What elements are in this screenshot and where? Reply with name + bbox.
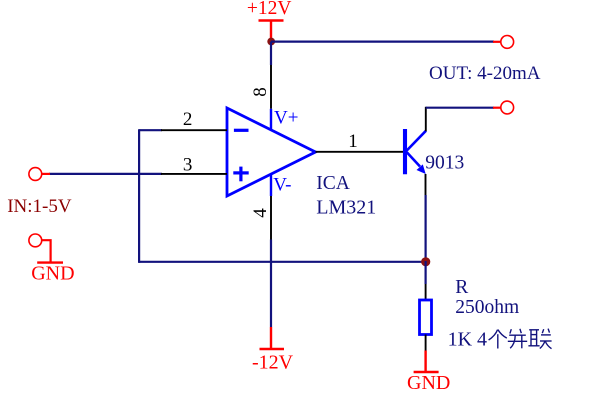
svg-text:ICA: ICA [316,173,350,194]
svg-text:1K 4: 1K 4 [448,328,487,350]
resistor R bottom lead [425,335,427,351]
wire pin 2 navy segment [139,129,162,131]
op-amp pin 2 lead [161,129,227,131]
wire feedback bottom horizontal [139,261,426,263]
terminal circle left GND [29,234,42,247]
op-amp pin 3 lead [161,173,227,175]
resistor R top lead [425,284,427,300]
wire node to resistor navy segment [425,261,427,284]
op-amp output pin 1 lead [316,151,404,153]
terminal circle top OUT [501,36,514,49]
op-amp non-inverting plus sign [233,171,248,174]
op-amp pin 8 blue stub [270,109,272,130]
wire feedback vertical [138,129,140,263]
svg-text:LM321: LM321 [316,197,376,219]
svg-text:GND: GND [31,262,74,284]
wire red stub at top terminal [493,41,502,43]
svg-text:9013: 9013 [425,153,464,174]
svg-text:R: R [455,277,468,298]
power -12V stub wire [270,327,272,349]
svg-text:250ohm: 250ohm [455,297,519,318]
wire from supply node down to pin 8 [270,42,272,65]
value note CJK char lian [528,329,551,349]
power +12V bar symbol [259,19,284,21]
wire red stub at lower output terminal [493,107,502,109]
power +12V stub wire [270,21,272,42]
transistor collector black stub [425,107,427,131]
transistor emitter black stub [425,174,427,195]
svg-text:1: 1 [348,131,358,152]
svg-text:2: 2 [183,109,193,130]
svg-text:OUT: 4-20mA: OUT: 4-20mA [429,63,541,84]
wire pin 4 to -12V [270,240,272,328]
transistor Q1 emitter diagonal with arrow [407,152,420,166]
junction dot supply node [267,38,275,46]
op-amp U1 triangle body [227,108,316,196]
value note CJK char bing [508,329,527,349]
wire left GND elbow [42,240,51,261]
wire red stub at IN terminal [42,173,51,175]
ground right GND bar symbol [414,371,439,373]
ground left GND bar symbol [37,261,63,263]
svg-text:V-: V- [273,174,291,195]
wire pin 3 navy segment from input [49,173,162,175]
op-amp inverting minus sign [234,129,249,132]
resistor R body box [420,300,432,335]
wire collector to output terminal [426,107,494,109]
svg-text:IN:1-5V: IN:1-5V [7,196,72,217]
power -12V bar symbol [260,348,285,350]
wire top rail to output terminal [271,40,494,42]
junction dot feedback node [421,257,430,266]
svg-text:GND: GND [407,372,450,394]
terminal circle lower OUT [501,101,514,114]
svg-text:4: 4 [250,208,271,218]
wire emitter down to feedback node [425,195,427,260]
op-amp pin 4 lead [270,196,272,240]
transistor Q1 base bar [403,129,407,174]
svg-text:V+: V+ [274,107,298,128]
svg-text:3: 3 [183,154,193,175]
svg-text:-12V: -12V [252,352,294,374]
op-amp pin 4 blue stub [270,174,272,196]
ground right stub wire [424,351,426,372]
value note CJK char ge [489,330,507,349]
svg-text:8: 8 [250,87,271,97]
op-amp pin 8 lead [270,65,272,109]
svg-text:+12V: +12V [247,0,292,19]
terminal circle IN [29,168,42,181]
transistor Q1 collector diagonal [406,131,426,151]
